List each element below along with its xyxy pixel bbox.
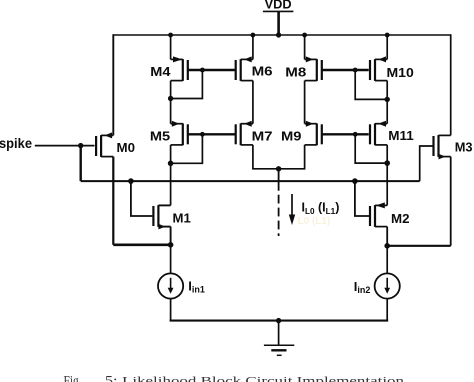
wire M2 source down [386, 227, 388, 246]
wire node A to M11 [386, 99, 388, 123]
transistor M3 [439, 134, 451, 136]
svg-text:IL0 (IL1): IL0 (IL1) [302, 200, 340, 216]
wire M11 drain to node B right [386, 145, 388, 163]
current source Iin1 circle [158, 273, 183, 298]
svg-text:M4: M4 [150, 64, 171, 79]
wire M0 drain down [112, 157, 114, 245]
node VDD-M6 [251, 33, 256, 38]
node A right [385, 97, 390, 102]
wire M5 drain to node B [170, 145, 172, 163]
wire M4 drain to node A [170, 81, 172, 99]
wire M10 drain to node A right [386, 81, 388, 100]
VDD supply stub [277, 11, 280, 35]
svg-text:Iin1: Iin1 [188, 278, 205, 294]
node A left [168, 96, 173, 101]
wire VDD to M6 [252, 35, 254, 59]
node B right [384, 160, 390, 166]
node M2 gate tap [352, 178, 358, 184]
wire node B to M2 drain [386, 163, 388, 205]
node VDD-M8 [302, 33, 307, 38]
wire Iin2 to bottom rail [386, 299, 388, 321]
wire M7 drain to centre node [253, 145, 279, 169]
svg-text:M1: M1 [173, 211, 191, 226]
wire VDD to M10 [386, 35, 388, 59]
current source Iin2 arrow [386, 278, 388, 291]
transistor M4 [171, 58, 183, 60]
wire M6-M7 chain [252, 81, 254, 124]
transistor M5 [171, 123, 183, 125]
svg-text:Fig.: Fig. [64, 373, 82, 382]
wire IL0 solid segment [278, 169, 280, 191]
transistor M10 [375, 58, 387, 60]
svg-text:M5: M5 [150, 129, 170, 144]
node spike junction [78, 143, 83, 148]
node M10 gate junction [353, 68, 358, 73]
wire M3 source down [450, 157, 452, 246]
wire node C to Iin2 [386, 246, 388, 274]
wire M8-M9 chain [304, 81, 306, 124]
node M4 gate junction [200, 68, 205, 73]
wire VDD rail [113, 34, 450, 36]
wire spike input [35, 145, 95, 147]
node C right [384, 243, 390, 249]
wire M1 gate drop [131, 181, 153, 216]
wire VDD to M4 [170, 35, 172, 59]
wire node B to M1 drain [170, 163, 172, 205]
transistor M9 [305, 123, 317, 125]
wire gate bus [81, 180, 420, 182]
node ground tap [276, 318, 281, 323]
current source Iin1 arrow [170, 278, 172, 291]
wire M1 source down [170, 227, 172, 245]
svg-text:M6: M6 [252, 63, 273, 78]
wire VDD to M3 drain [450, 34, 452, 135]
node M1 gate tap [128, 178, 134, 184]
transistor M11 [375, 123, 387, 125]
wire M9 drain to centre node [279, 145, 305, 169]
wire bottom rail [170, 320, 389, 322]
transistor M1 [158, 204, 170, 206]
wire Iin1 to bottom rail [170, 299, 172, 321]
node VDD-centre [276, 32, 281, 37]
node M11 gate junction [353, 132, 358, 137]
svg-text:VDD: VDD [265, 0, 292, 12]
node VDD-M4 [168, 33, 173, 38]
wire ground stub [278, 321, 280, 346]
wire M2 gate drop [355, 181, 369, 216]
node centre IL0 [276, 166, 281, 171]
node M5 gate junction [200, 132, 205, 137]
svg-text:M8: M8 [285, 64, 306, 79]
node VDD-M10 [385, 33, 390, 38]
wire node C to Iin1 [170, 245, 172, 274]
svg-text:M7: M7 [252, 128, 273, 143]
wire M0 drain to M1 source node [113, 243, 170, 246]
current source Iin2 circle [375, 273, 400, 298]
wire M11 diode connection [355, 134, 387, 163]
node B left [168, 161, 174, 167]
svg-text:M0: M0 [117, 140, 136, 155]
node C left [168, 242, 174, 248]
svg-text:M10: M10 [387, 65, 414, 80]
wire M10 diode connection [355, 70, 387, 99]
wire VDD to M0 source [112, 34, 114, 135]
transistor M2 [375, 204, 387, 206]
wire node A to M5 source [170, 99, 172, 124]
transistor M0 [101, 134, 113, 136]
svg-text:Iin2: Iin2 [354, 279, 371, 295]
wire M3 source to M2 node [387, 245, 451, 247]
svg-text:M9: M9 [281, 129, 302, 144]
wire IL0 dashed segment [278, 195, 280, 204]
wire VDD to M8 [304, 35, 306, 59]
IL0 current arrow [291, 194, 293, 217]
transistor M8 [305, 58, 317, 60]
transistor M6 [241, 58, 253, 60]
svg-text:spike: spike [0, 136, 32, 151]
svg-text:M2: M2 [391, 211, 410, 226]
wire spike to gate line [79, 146, 81, 182]
wire M5 diode connection [171, 134, 203, 163]
svg-text:M11: M11 [388, 128, 414, 143]
transistor M7 [241, 123, 253, 125]
VDD underline [263, 10, 294, 12]
wire M4 diode connection [171, 70, 203, 99]
ground [264, 344, 294, 346]
svg-text:M3: M3 [455, 140, 473, 155]
svg-text:Likelihood Block Circuit Imple: Likelihood Block Circuit Implementation [122, 373, 404, 382]
svg-text:L0 (L1): L0 (L1) [298, 216, 331, 227]
svg-text:5:: 5: [105, 373, 118, 382]
wire M3 gate [420, 146, 433, 181]
